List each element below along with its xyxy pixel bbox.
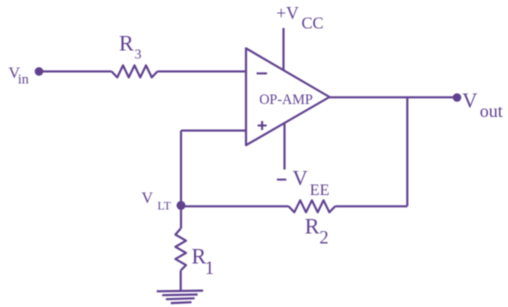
svg-text:3: 3 bbox=[135, 48, 142, 63]
svg-text:in: in bbox=[18, 72, 29, 87]
wire Vin to R3 bbox=[39, 70, 112, 72]
ground symbol line 2 bbox=[162, 293, 197, 296]
svg-text:V: V bbox=[142, 190, 154, 207]
wire non-inverting input down to VLT bbox=[180, 131, 182, 207]
wire +VCC supply to op-amp bbox=[282, 28, 284, 70]
ground symbol line 1 bbox=[157, 290, 203, 293]
svg-text:+V: +V bbox=[276, 3, 299, 23]
wire R3 to op-amp inverting input bbox=[158, 70, 247, 72]
svg-text:EE: EE bbox=[310, 182, 330, 199]
svg-text:V: V bbox=[462, 88, 477, 112]
svg-text:2: 2 bbox=[319, 229, 328, 249]
svg-text:R: R bbox=[119, 30, 134, 55]
wire op-amp to -VEE supply bbox=[283, 123, 285, 170]
power -VEE minus sign bbox=[277, 179, 286, 181]
svg-text:1: 1 bbox=[205, 259, 214, 279]
ground symbol line 3 bbox=[166, 297, 195, 300]
wire feedback vertical from output bbox=[406, 97, 408, 206]
node VLT junction dot bbox=[177, 201, 186, 210]
wire feedback to R2 bbox=[335, 205, 407, 207]
op-amp inverting pin minus sign bbox=[257, 72, 267, 74]
resistor R3 zigzag bbox=[112, 65, 158, 77]
svg-text:out: out bbox=[480, 101, 503, 121]
wire op-amp output to Vout bbox=[330, 96, 458, 98]
node Vout terminal dot bbox=[453, 93, 462, 102]
wire VLT to R1 bbox=[180, 206, 182, 228]
svg-text:V: V bbox=[293, 166, 308, 190]
wire R2 to node VLT bbox=[181, 205, 289, 207]
resistor R1 zigzag bbox=[175, 229, 186, 271]
op-amp non-inverting pin plus sign bbox=[258, 121, 267, 130]
node Vin terminal dot bbox=[35, 67, 44, 76]
ground symbol line 4 bbox=[171, 301, 192, 304]
svg-text:LT: LT bbox=[157, 199, 171, 213]
svg-text:R: R bbox=[305, 214, 320, 239]
wire R1 to ground bbox=[180, 271, 182, 292]
wire op-amp non-inverting input horizontal bbox=[181, 130, 246, 132]
svg-text:OP-AMP: OP-AMP bbox=[259, 92, 313, 108]
resistor R2 zigzag bbox=[289, 200, 336, 212]
svg-text:CC: CC bbox=[302, 13, 324, 32]
op-amp U1 triangle bbox=[246, 48, 330, 145]
